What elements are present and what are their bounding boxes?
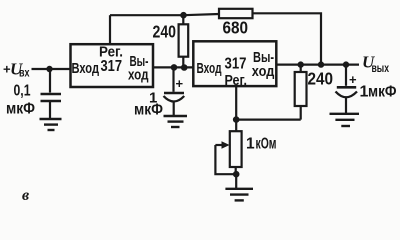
svg-text:Вход: Вход [72,60,100,77]
ground G1 [40,119,62,130]
wire R3 bottom to adj node [236,118,301,120]
U1 pin labels [72,45,149,84]
wire U1 adj pin to top rail [109,15,111,44]
svg-text:+: + [349,72,357,87]
ground G4 [330,114,360,126]
svg-text:0,1: 0,1 [14,83,31,100]
svg-text:240: 240 [153,22,177,42]
potentiometer R4 1 kOm [215,120,241,175]
junction node top rail / R1 [180,12,187,19]
capacitor C3 1 uF polarized [336,65,358,113]
node Uvyx output label [362,53,389,76]
svg-text:в: в [22,187,29,204]
resistor R2 680 [219,9,253,18]
resistor R3 240 [295,65,307,120]
ground G2 [164,116,188,127]
U2 pin labels [197,50,275,89]
capacitor C1 0,1 uF [41,69,62,118]
wire input [32,68,71,70]
svg-text:1: 1 [246,136,255,153]
label C1 value 0,1 мкФ [6,83,35,118]
junction node adj [233,116,240,123]
wire top rail [110,14,219,15]
node +Uvx input label [3,60,30,80]
regulator U1 317 box [71,44,154,87]
regulator U2 317 box [193,41,276,86]
junction node C3 tap [343,61,349,67]
wire U2 adj pin down [235,86,237,120]
wire between regulators [153,66,193,68]
svg-text:мкФ: мкФ [6,101,35,118]
svg-text:мкФ: мкФ [368,84,397,101]
svg-text:+: + [176,76,184,91]
svg-text:мкФ: мкФ [134,102,163,119]
junction node input cap [46,66,52,72]
junction node pot bottom [233,171,240,178]
wire R2 right to output rail [253,13,322,64]
svg-text:ход: ход [252,64,274,80]
capacitor C2 1 uF polarized [164,67,185,115]
label C2 value 1 мкФ [134,90,163,119]
svg-text:ход: ход [128,68,149,84]
svg-text:317: 317 [101,58,123,75]
resistor R1 240 [179,15,189,67]
svg-text:680: 680 [223,18,249,38]
svg-text:240: 240 [308,69,334,89]
svg-text:вых: вых [372,63,390,75]
wire output rail [276,63,359,65]
ground G3 [225,174,253,200]
svg-text:Вход: Вход [197,60,222,77]
junction node R1 bottom [181,64,188,71]
junction node 680 drop [318,61,324,67]
label C3 value 1 мкФ [360,84,397,101]
svg-text:вх: вх [19,68,30,80]
junction node C2 tap [171,64,178,71]
svg-text:кОм: кОм [256,136,277,153]
label R4 value 1 кОм [246,136,277,153]
junction node R3 top [298,61,304,67]
svg-text:317: 317 [225,56,247,73]
